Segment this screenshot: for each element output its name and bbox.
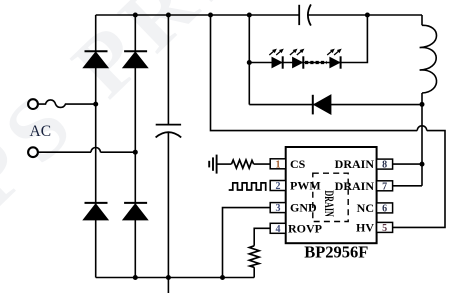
- svg-text:4: 4: [276, 224, 281, 235]
- svg-text:HV: HV: [356, 220, 374, 234]
- svg-text:DRAIN: DRAIN: [322, 190, 337, 217]
- svg-text:8: 8: [382, 160, 387, 171]
- svg-text:CS: CS: [290, 157, 306, 171]
- svg-text:7: 7: [382, 181, 387, 192]
- svg-text:ROVP: ROVP: [288, 221, 322, 235]
- svg-text:DRAIN: DRAIN: [335, 157, 375, 171]
- svg-text:AC: AC: [30, 123, 52, 140]
- svg-text:PWM: PWM: [290, 179, 321, 193]
- svg-text:DRAIN: DRAIN: [335, 179, 375, 193]
- svg-text:1: 1: [276, 159, 281, 170]
- svg-text:3: 3: [276, 203, 281, 214]
- svg-text:6: 6: [382, 203, 387, 214]
- svg-text:BP2956F: BP2956F: [304, 242, 368, 261]
- svg-text:NC: NC: [357, 201, 374, 215]
- svg-text:5: 5: [382, 223, 387, 234]
- svg-text:2: 2: [276, 181, 281, 192]
